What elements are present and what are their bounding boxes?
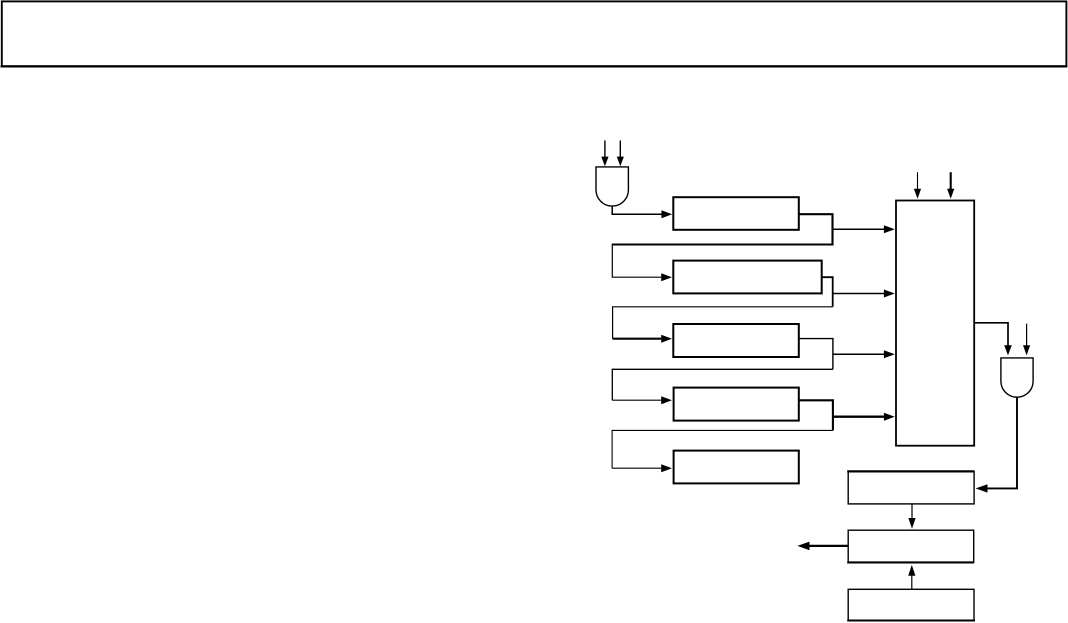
wire bus 1 down to B2 input	[612, 244, 672, 282]
wire branch 2 into big block U1	[833, 290, 895, 298]
wire bus 4 into B5 input	[612, 464, 672, 472]
wire B1 output step and feedback bus 1	[612, 214, 832, 244]
arrow box C up into box B	[908, 565, 915, 589]
banner bottom edge	[1, 65, 1068, 67]
and-gate G2 input arrow 2	[1023, 324, 1030, 356]
wire G2 output down and left into box A	[976, 397, 1017, 492]
U1 top input arrow 1	[914, 172, 921, 199]
block B5	[674, 451, 799, 484]
wire B3 output step	[799, 339, 833, 370]
and-gate G1 input arrow 2	[617, 141, 624, 167]
block B3	[673, 324, 799, 357]
title block (empty banner box)	[2, 1, 1067, 66]
block B2	[673, 261, 821, 294]
wire feedback bus 3	[612, 369, 833, 400]
and-gate G2	[1001, 358, 1033, 397]
wire branch 4 into big block U1	[833, 413, 895, 421]
box A top edge	[847, 470, 974, 472]
U1 top input arrow 2	[947, 172, 954, 199]
and-gate G1 input arrow 1	[601, 141, 608, 167]
box B bottom edge	[847, 561, 974, 563]
wire B4 output step	[799, 400, 833, 430]
box C bottom edge	[847, 619, 975, 621]
box A	[848, 471, 974, 504]
wire G1 output to block B1	[612, 206, 672, 218]
and-gate G1	[596, 167, 628, 206]
big block U1	[896, 201, 974, 446]
block B1	[673, 197, 799, 230]
wire U1 output to and-gate G2 left input	[974, 323, 1012, 356]
box C	[848, 589, 974, 620]
wire bus 3 into B4 input	[612, 396, 672, 404]
box B	[848, 530, 974, 562]
wire branch 1 into big block U1	[833, 225, 895, 233]
arrow box A to box B	[908, 504, 915, 529]
wire feedback bus 4	[612, 430, 833, 468]
arrow box B output to the left	[797, 542, 848, 551]
wire feedback bus 2	[613, 307, 833, 339]
wire B2 output step	[822, 277, 833, 307]
block B4	[674, 388, 799, 421]
wire branch 3 into big block U1	[833, 350, 895, 358]
wire bus 2 into B3 input	[613, 335, 672, 343]
